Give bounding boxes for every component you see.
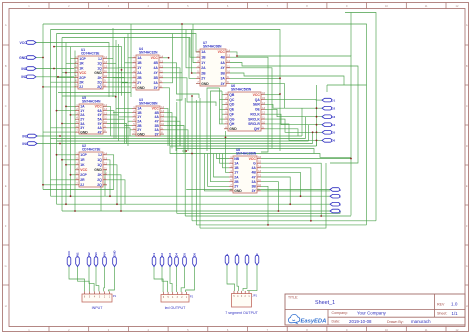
wires mid trunk bundle	[37, 135, 302, 137]
svg-text:D3: D3	[331, 115, 335, 119]
svg-text:H: H	[5, 304, 7, 308]
svg-text:1J: 1J	[98, 57, 102, 61]
svg-text:VCC: VCC	[218, 50, 226, 54]
svg-text:2Q: 2Q	[97, 85, 102, 89]
svg-text:1Y: 1Y	[201, 61, 206, 65]
svg-text:QD: QD	[229, 103, 235, 107]
net flag O6	[193, 253, 197, 267]
IC U1 CD74HC73E	[74, 48, 108, 89]
svg-text:SN74HC32N: SN74HC32N	[139, 51, 158, 55]
svg-text:VCC: VCC	[253, 93, 261, 97]
svg-text:2B: 2B	[137, 76, 142, 80]
svg-text:SN74HC08N: SN74HC08N	[139, 102, 158, 106]
wire top trunk D	[57, 34, 201, 52]
svg-text:1CP: 1CP	[79, 57, 86, 61]
svg-text:2Q: 2Q	[97, 183, 102, 187]
svg-text:1Q: 1Q	[97, 62, 102, 66]
svg-text:D: D	[5, 144, 7, 148]
net flag VCC	[20, 41, 36, 45]
svg-text:3A: 3A	[251, 180, 256, 184]
svg-text:REV: REV	[437, 303, 445, 307]
svg-text:SN74HC08N: SN74HC08N	[203, 45, 222, 49]
svg-text:Company:: Company:	[332, 311, 348, 315]
svg-text:RCLK: RCLK	[250, 113, 260, 117]
svg-text:D6: D6	[331, 139, 335, 143]
svg-text:2B: 2B	[234, 180, 239, 184]
net flag a	[225, 253, 229, 265]
net flag O3	[168, 253, 172, 267]
svg-text:VCC: VCC	[79, 71, 87, 75]
svg-text:4B: 4B	[251, 171, 256, 175]
svg-text:2J: 2J	[79, 85, 83, 89]
svg-text:OE: OE	[255, 108, 261, 112]
svg-text:D4: D4	[331, 123, 335, 127]
net flag 2	[330, 194, 341, 198]
wires U7 right side	[230, 52, 351, 216]
svg-text:QH': QH'	[254, 127, 260, 131]
svg-text:GND: GND	[234, 189, 242, 193]
net flag D1	[322, 98, 335, 102]
net flag IN4	[103, 252, 107, 266]
svg-text:Your Company: Your Company	[357, 310, 387, 315]
svg-text:4Y: 4Y	[98, 130, 103, 134]
svg-text:G: G	[466, 264, 468, 268]
wires U6 right / D flag feeds	[265, 94, 280, 96]
wires U3 left feeds	[116, 107, 132, 109]
svg-text:O5: O5	[183, 253, 187, 257]
svg-text:O2: O2	[160, 253, 164, 257]
svg-text:3B: 3B	[251, 185, 256, 189]
svg-text:A: A	[5, 23, 7, 27]
net flag 3	[330, 202, 341, 206]
svg-text:SRCLK: SRCLK	[248, 117, 260, 121]
svg-text:4Y: 4Y	[221, 66, 226, 70]
svg-text:EasyEDA: EasyEDA	[301, 319, 327, 325]
wire long mid vertical	[176, 24, 182, 100]
svg-text:QB: QB	[229, 93, 235, 97]
svg-text:D: D	[466, 144, 468, 148]
net flag d	[255, 253, 259, 265]
wire IN2 flag	[36, 76, 74, 78]
svg-text:4A: 4A	[153, 66, 158, 70]
wires U2 left feeds	[57, 154, 76, 156]
svg-text:7 segment OUTPUT: 7 segment OUTPUT	[225, 311, 258, 315]
svg-text:3Y: 3Y	[221, 82, 226, 86]
svg-text:3B: 3B	[153, 76, 158, 80]
svg-text:2K: 2K	[97, 76, 102, 80]
wires U6 left feeds	[220, 88, 225, 124]
wires U7 left feeds	[186, 30, 196, 68]
svg-text:1R: 1R	[80, 158, 85, 162]
wire left rail 7	[74, 51, 76, 212]
wires U3 right side	[164, 108, 168, 146]
net flag O5	[183, 253, 187, 267]
svg-text:E: E	[466, 184, 468, 188]
svg-text:CD74HC73E: CD74HC73E	[81, 52, 99, 56]
wires U4 left feeds	[128, 57, 132, 59]
svg-text:1R: 1R	[79, 62, 84, 66]
connector P1 INPUT	[82, 291, 117, 310]
svg-text:GND: GND	[229, 127, 237, 131]
svg-text:2CP: 2CP	[80, 173, 87, 177]
svg-text:d: d	[255, 253, 259, 255]
net flag O2	[160, 253, 164, 267]
svg-text:2CP: 2CP	[79, 76, 86, 80]
svg-text:GND: GND	[94, 168, 102, 172]
svg-text:led OUTPUT: led OUTPUT	[165, 306, 186, 310]
wires U2 right side	[107, 155, 114, 190]
wire D3 feed	[265, 109, 322, 116]
IC U5 SN74HC04N	[75, 96, 108, 134]
net flag D3	[322, 115, 335, 119]
svg-text:2Y: 2Y	[234, 185, 239, 189]
wire left rail 6	[70, 47, 72, 197]
net flag IN1	[76, 252, 80, 266]
svg-text:GND: GND	[201, 82, 209, 86]
svg-text:Sheet:: Sheet:	[437, 312, 447, 316]
svg-text:2R: 2R	[79, 81, 84, 85]
wire D5 feed	[265, 119, 322, 132]
net flag D5	[322, 131, 335, 135]
svg-text:SN74HC266N: SN74HC266N	[236, 152, 257, 156]
svg-text:CD74HC73E: CD74HC73E	[82, 148, 100, 152]
svg-text:2K: 2K	[97, 173, 102, 177]
svg-text:1A: 1A	[201, 50, 206, 54]
svg-text:1Y: 1Y	[234, 171, 239, 175]
svg-text:O4: O4	[175, 253, 179, 257]
svg-text:SRCLR: SRCLR	[248, 122, 260, 126]
svg-text:INPUT: INPUT	[92, 306, 104, 310]
wire left rail 1	[42, 24, 44, 190]
IC U3 SN74HC08N	[132, 98, 165, 136]
wire top trunk E	[62, 38, 200, 58]
wires U8 right side	[261, 158, 351, 160]
svg-text:1B: 1B	[137, 61, 142, 65]
connector JP1 7 segment OUTPUT	[225, 291, 258, 315]
svg-text:GND: GND	[94, 71, 102, 75]
svg-text:TITLE:: TITLE:	[288, 295, 298, 299]
svg-text:3A: 3A	[153, 81, 158, 85]
svg-text:SER: SER	[253, 103, 261, 107]
svg-text:SN74HC595N: SN74HC595N	[231, 88, 252, 92]
svg-text:1B: 1B	[201, 56, 206, 60]
net flag D6	[322, 139, 335, 143]
svg-text:B: B	[5, 64, 7, 68]
svg-text:1A: 1A	[234, 162, 239, 166]
svg-text:2Y: 2Y	[201, 77, 206, 81]
svg-text:3B: 3B	[220, 71, 225, 75]
wire top trunk B	[43, 24, 367, 225]
svg-text:4Y: 4Y	[252, 175, 257, 179]
wire D1 feed	[265, 99, 322, 102]
svg-text:1Y: 1Y	[137, 66, 142, 70]
svg-text:QE: QE	[229, 108, 235, 112]
net flag VCC	[67, 250, 71, 267]
wire VCC flag trunk	[36, 43, 109, 98]
svg-text:VCC: VCC	[67, 250, 71, 257]
svg-text:1J: 1J	[98, 153, 102, 157]
svg-text:2Y: 2Y	[137, 81, 142, 85]
svg-text:NB: NB	[234, 157, 239, 161]
svg-text:3A: 3A	[220, 77, 225, 81]
svg-text:1K: 1K	[79, 66, 84, 70]
wire D6 feed	[265, 124, 322, 140]
IC U2 CD74HC73E	[75, 144, 108, 187]
svg-text:1K: 1K	[80, 163, 85, 167]
wires U5 right side	[107, 106, 111, 136]
svg-text:QA: QA	[255, 98, 261, 102]
svg-text:2B: 2B	[201, 71, 206, 75]
svg-text:IN4: IN4	[103, 252, 107, 257]
svg-text:GND: GND	[113, 250, 117, 256]
svg-text:4A: 4A	[251, 166, 256, 170]
vertical risers from mid bundle to D flag lines	[301, 108, 303, 136]
net flag D4	[322, 123, 335, 127]
svg-text:QG: QG	[229, 117, 235, 121]
wires INPUT connector	[69, 267, 85, 292]
svg-text:GND: GND	[80, 130, 88, 134]
svg-text:VCC: VCC	[80, 168, 88, 172]
svg-text:4A: 4A	[220, 61, 225, 65]
net flag IN2	[21, 75, 36, 79]
wire trunk F	[54, 47, 122, 96]
svg-text:D1: D1	[331, 98, 335, 102]
junction dots	[42, 57, 44, 59]
wire QH prime down	[265, 129, 298, 136]
svg-text:Sheet_1: Sheet_1	[315, 300, 335, 306]
title block	[285, 294, 465, 325]
svg-text:1.0: 1.0	[451, 302, 458, 307]
svg-text:H: H	[466, 304, 468, 308]
net flag b	[235, 253, 239, 265]
wire top trunk C	[51, 30, 281, 152]
svg-text:IN3: IN3	[94, 252, 98, 257]
svg-text:3Y: 3Y	[155, 132, 160, 136]
svg-text:E: E	[5, 184, 7, 188]
border row ticks left/right	[3, 44, 10, 46]
svg-text:C: C	[5, 104, 7, 108]
svg-text:2A: 2A	[137, 71, 142, 75]
EasyEDA logo	[288, 314, 326, 324]
svg-text:GND: GND	[137, 132, 145, 136]
net flag GND	[19, 56, 36, 60]
IC U7 SN74HC08N	[196, 41, 231, 86]
svg-text:A: A	[466, 23, 468, 27]
svg-text:O1: O1	[152, 253, 156, 257]
svg-text:Date:: Date:	[332, 320, 341, 324]
svg-text:G: G	[253, 162, 256, 166]
net flag O1	[152, 253, 156, 267]
net flag D2	[322, 106, 335, 110]
wire left rail 2	[50, 30, 52, 197]
svg-text:P1: P1	[113, 294, 117, 298]
IC U4 SN74HC32N	[132, 47, 164, 90]
svg-text:GND: GND	[137, 86, 145, 90]
net flag IN3	[22, 134, 37, 138]
svg-text:4Y: 4Y	[154, 71, 159, 75]
svg-text:VCC: VCC	[249, 157, 257, 161]
svg-text:B: B	[466, 64, 468, 68]
wires led OUTPUT connector	[154, 267, 163, 293]
wires U8 left feeds	[217, 154, 230, 159]
svg-text:3Y: 3Y	[154, 86, 159, 90]
svg-text:D5: D5	[331, 131, 335, 135]
net flag c	[245, 253, 249, 265]
net flag IN2	[87, 252, 91, 266]
svg-text:G: G	[5, 264, 7, 268]
wire box around D flags	[327, 84, 367, 86]
svg-text:Drawn By:: Drawn By:	[387, 320, 404, 324]
svg-text:1Q: 1Q	[97, 158, 102, 162]
svg-text:2R: 2R	[80, 178, 85, 182]
svg-text:2Q: 2Q	[97, 81, 102, 85]
svg-text:2019-10-08: 2019-10-08	[349, 319, 372, 324]
svg-text:manurach: manurach	[411, 319, 431, 324]
svg-text:1Q: 1Q	[97, 163, 102, 167]
wire IN1 flag	[36, 68, 74, 70]
svg-text:QH: QH	[229, 122, 235, 126]
svg-text:QC: QC	[229, 98, 235, 102]
wire left rail 5	[65, 43, 67, 205]
svg-text:D2: D2	[331, 107, 335, 111]
net flag IN3	[94, 252, 98, 266]
svg-text:O6: O6	[193, 253, 197, 257]
svg-text:2A: 2A	[234, 175, 239, 179]
net flag IN4	[22, 142, 37, 146]
svg-text:JP1: JP1	[252, 294, 257, 298]
wire D2 feed	[265, 104, 322, 108]
svg-text:2A: 2A	[201, 66, 206, 70]
wires bottom trunks	[43, 189, 114, 191]
svg-text:1A: 1A	[137, 56, 142, 60]
svg-text:1CP: 1CP	[80, 153, 87, 157]
IC U6 SN74HC595N	[224, 84, 266, 131]
svg-text:1Q: 1Q	[97, 66, 102, 70]
svg-text:b: b	[235, 253, 239, 255]
connector P2 led OUTPUT	[161, 292, 194, 310]
svg-text:QF: QF	[229, 113, 234, 117]
svg-text:2Q: 2Q	[97, 178, 102, 182]
net flag IN1	[21, 67, 36, 71]
net flag GND	[113, 250, 117, 266]
svg-text:3Y: 3Y	[252, 189, 257, 193]
IC U8 SN74HC266N	[229, 148, 262, 193]
svg-text:4B: 4B	[220, 56, 225, 60]
svg-text:P2: P2	[190, 295, 194, 299]
wires U4 right side	[163, 57, 169, 59]
wire top trunk A	[345, 13, 376, 221]
svg-text:1/1: 1/1	[452, 311, 459, 316]
svg-text:2J: 2J	[80, 183, 84, 187]
svg-text:C: C	[466, 104, 468, 108]
svg-text:O3: O3	[168, 253, 172, 257]
wire left rail 4	[61, 38, 63, 212]
svg-text:IN1: IN1	[76, 252, 80, 257]
wire right rail A upper	[350, 13, 352, 57]
svg-text:4B: 4B	[153, 61, 158, 65]
svg-text:1B: 1B	[234, 166, 239, 170]
svg-text:IN2: IN2	[87, 252, 91, 257]
wires 7 segment connector	[227, 265, 235, 291]
wires below U1	[58, 92, 131, 94]
svg-text:SN74HC04N: SN74HC04N	[82, 100, 101, 104]
border column ticks top/bottom	[48, 3, 50, 9]
net flag O4	[175, 253, 179, 267]
wire GND flag	[36, 57, 43, 59]
wire left rail 3	[56, 34, 58, 205]
wires U1 left pin feeds	[71, 58, 75, 60]
wire D4 feed	[265, 114, 322, 125]
svg-text:VCC: VCC	[151, 56, 159, 60]
wires U5 left feeds	[66, 105, 75, 107]
wires channel U1-U4	[112, 28, 114, 97]
net flag 1	[330, 188, 341, 192]
net flag 4	[330, 209, 341, 213]
